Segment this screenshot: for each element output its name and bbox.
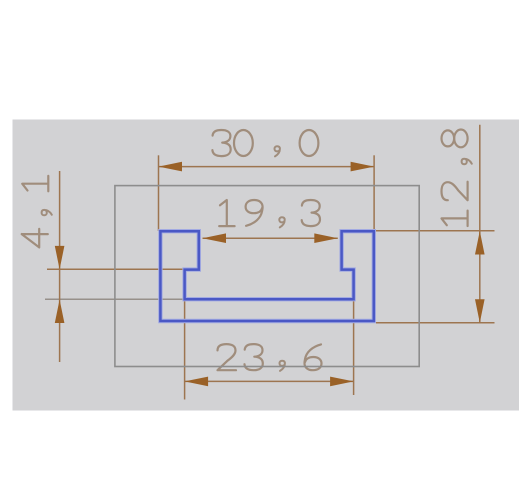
dimension 12,8 top arrowhead [475, 231, 485, 255]
dimension 30,0 extension line right [373, 155, 375, 231]
dimension 23,6 extension line right [353, 270, 355, 395]
dimension 23,6 dimension line [185, 380, 354, 382]
dimension 30,0 extension line left [158, 155, 160, 231]
dimension 4,1 extension line bottom (light) [45, 298, 187, 300]
outline rectangle (part boundary) [115, 186, 419, 367]
dimension 23,6 extension line left [184, 270, 186, 400]
dimension 12,8 dimension line [479, 125, 481, 323]
T-track profile (blue) [160, 231, 373, 321]
dimension 30,0 right arrowhead [351, 162, 375, 172]
dimension 30,0 text [212, 130, 318, 156]
dimension 23,6 left arrowhead [185, 377, 209, 387]
dimension 4,1 dimension line [59, 171, 61, 362]
dimension 23,6 right arrowhead [330, 377, 354, 387]
dimension 30,0 dimension line [159, 166, 375, 168]
dimension 23,6 text [218, 344, 322, 371]
gray drawing panel [13, 120, 520, 411]
dimension 19,3 right arrowhead [314, 233, 338, 243]
dimension 12,8 extension line bottom [376, 322, 495, 324]
dimension 19,3 dimension line [203, 237, 338, 239]
dimension 12,8 bottom arrowhead [475, 299, 485, 323]
dimension 4,1 extension line top [47, 268, 187, 270]
T-track profile halo (light blue) [160, 231, 373, 321]
dimension 4,1 text (rotated) [22, 176, 52, 248]
dimension 12,8 extension line top [376, 230, 495, 232]
dimension 12,8 text (rotated) [442, 130, 472, 227]
dimension 4,1 lower arrowhead (points up) [55, 300, 65, 324]
dimension 19,3 left arrowhead [203, 233, 227, 243]
dimension 4,1 upper arrowhead (points down) [55, 246, 65, 270]
dimension 30,0 left arrowhead [159, 162, 183, 172]
dimension 19,3 text [219, 200, 320, 227]
